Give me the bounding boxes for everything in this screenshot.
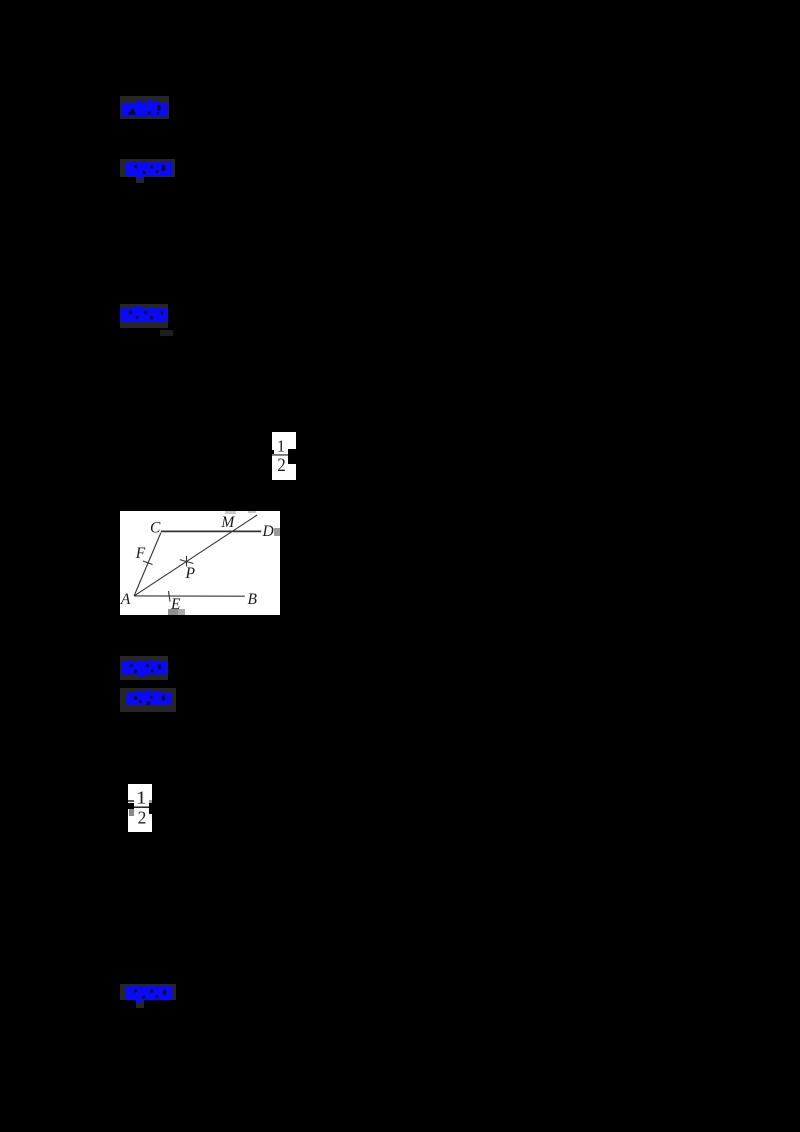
svg-text:1: 1 [277, 436, 285, 455]
svg-text:A: A [120, 591, 131, 608]
svg-text:2: 2 [138, 808, 147, 828]
svg-text:F: F [135, 545, 146, 562]
svg-text:P: P [185, 565, 196, 582]
svg-text:C: C [150, 520, 161, 537]
svg-text:M: M [220, 514, 235, 531]
svg-text:D: D [262, 523, 274, 540]
svg-text:1: 1 [136, 789, 146, 808]
svg-text:2: 2 [277, 454, 285, 475]
svg-text:B: B [248, 591, 258, 608]
